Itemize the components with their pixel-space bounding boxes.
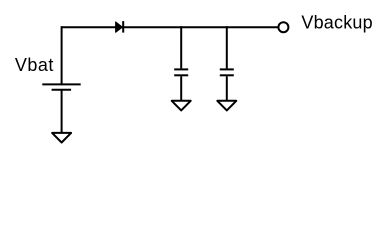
svg-text:Vbackup: Vbackup xyxy=(301,12,372,32)
svg-text:Vbat: Vbat xyxy=(15,55,54,75)
